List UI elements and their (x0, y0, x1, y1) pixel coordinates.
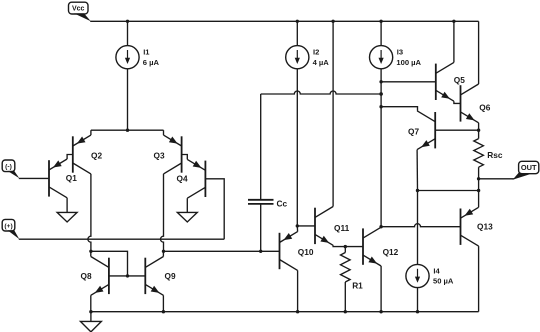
svg-text:Q6: Q6 (479, 102, 490, 112)
wire Q1 collector to ground (66, 198, 68, 213)
wire Q4 base down (205, 179, 224, 239)
node output Q13 (477, 189, 480, 192)
node Rsc top (477, 129, 480, 132)
svg-text:R1: R1 (352, 280, 363, 290)
svg-text:I3: I3 (397, 48, 403, 57)
transistor Q5 (436, 62, 454, 101)
label Q10 (298, 247, 314, 257)
transistor Q13 (461, 207, 479, 246)
transistor Q7 (417, 111, 435, 150)
svg-text:Q4: Q4 (177, 173, 188, 183)
svg-text:I1: I1 (143, 48, 150, 57)
node Q7 emitter I4 (416, 189, 419, 192)
wire Q9 collector up (162, 251, 164, 256)
svg-text:Q12: Q12 (383, 247, 399, 257)
node bottom I4 (416, 310, 419, 313)
wire Q8 collector up (90, 251, 92, 256)
wire Q8 Q9 bases (109, 275, 145, 277)
wire Q9 emitter down (162, 295, 164, 311)
top rail wire (128, 20, 479, 22)
node top rail Q11 collector (331, 20, 334, 23)
label Q13 (477, 221, 493, 231)
svg-text:100 µA: 100 µA (396, 58, 421, 67)
node bottom Q10 (296, 310, 299, 313)
label I3 100uA (396, 48, 421, 67)
label Q4 (177, 173, 188, 183)
svg-text:Q5: Q5 (454, 75, 465, 85)
noninverting input terminal (2, 219, 19, 239)
svg-text:Q8: Q8 (81, 271, 92, 281)
wire Vcc to top rail (90, 20, 127, 22)
node bottom R1 (344, 310, 347, 313)
wire Q2 collector down (88, 174, 91, 251)
label Q6 (479, 102, 490, 112)
wire Q8 emitter down (90, 295, 92, 311)
label Q3 (154, 150, 165, 160)
wire Q13 emitter down (478, 246, 480, 312)
wire I1 to input pair (127, 69, 129, 130)
wire rail to I1 (127, 21, 129, 45)
wire Q13 collector up (478, 191, 480, 208)
bottom rail wire (91, 311, 479, 313)
capacitor Cc (248, 94, 274, 251)
inverting input terminal (2, 160, 19, 178)
wire I4 top (417, 191, 419, 265)
node Q10 emitter Q11 base (296, 224, 299, 227)
wire Rsc node down (478, 179, 480, 191)
wire Q2 emitter drop (90, 130, 92, 135)
label Cc (277, 198, 288, 208)
wire Q7 collector line (381, 107, 417, 111)
wire Q4 emitter to Q3 base (182, 155, 188, 160)
wire rail to I3 (380, 21, 382, 45)
svg-text:Q11: Q11 (334, 223, 350, 233)
label I4 50uA (433, 266, 454, 285)
ground under Q4 (177, 212, 197, 222)
svg-text:Vcc: Vcc (72, 6, 85, 13)
wire Q11 base (297, 225, 315, 227)
wire Q10 collector down (297, 270, 299, 311)
node Q3 collector Q9 (162, 250, 165, 253)
wire Q11 emitter to Q12 base (333, 245, 363, 246)
svg-text:Q1: Q1 (66, 173, 77, 183)
wire Q1 emitter to Q2 base (67, 155, 73, 160)
transistor Q6 (461, 84, 479, 123)
wire Q5 emitter to Q6 base (454, 101, 461, 103)
svg-text:Rsc: Rsc (487, 150, 503, 160)
wire Q12 collector up (380, 226, 382, 229)
transistor Q2 (73, 135, 91, 174)
ground bottom (80, 321, 101, 332)
svg-text:OUT: OUT (521, 163, 537, 172)
label Q8 (81, 271, 92, 281)
wire mirror out to Q10 base (163, 250, 279, 252)
label Q1 (66, 173, 77, 183)
svg-text:Cc: Cc (277, 198, 288, 208)
svg-text:I4: I4 (433, 266, 440, 275)
wire I3 down (380, 69, 382, 227)
svg-text:50 µA: 50 µA (433, 277, 454, 286)
node top rail Q5 collector (452, 20, 455, 23)
wire rail down to Q6 collector (478, 21, 480, 84)
label Q9 (165, 271, 176, 281)
svg-text:(-): (-) (5, 163, 12, 170)
node bottom Q8 (89, 310, 92, 313)
label Q11 (334, 223, 350, 233)
wire Cc top horizontal (261, 91, 381, 94)
svg-text:Q13: Q13 (477, 221, 493, 231)
transistor Q1 (49, 159, 67, 198)
resistor Rsc (474, 130, 484, 179)
node R1 top (344, 245, 347, 248)
wire Q3 emitter drop (163, 130, 165, 135)
wire Q7 emitter to output (418, 190, 479, 192)
svg-text:Q7: Q7 (408, 126, 419, 136)
transistor Q4 (187, 159, 205, 198)
resistor R1 (341, 247, 351, 312)
current source I2 (286, 46, 309, 69)
wire Q10 emitter up (296, 226, 298, 232)
node I3 Cc line (379, 92, 382, 95)
wire Q11 collector up (332, 21, 334, 206)
svg-text:Q2: Q2 (91, 150, 102, 160)
svg-text:6 µA: 6 µA (143, 58, 160, 67)
current source I1 (116, 46, 139, 69)
wire Q7 base (435, 129, 478, 131)
label Q12 (383, 247, 399, 257)
wire emitter rail (91, 129, 164, 131)
wire to bottom ground (90, 312, 92, 322)
transistor Q9 (145, 257, 163, 296)
svg-text:I2: I2 (313, 48, 319, 57)
wire rail to I2 (296, 21, 298, 45)
label I1 6uA (143, 48, 160, 67)
wire OUT (479, 178, 515, 180)
current source I4 (406, 264, 429, 287)
label Q7 (408, 126, 419, 136)
wire mirror diode link (91, 251, 128, 276)
transistor Q10 (280, 232, 298, 271)
label R1 (352, 280, 363, 290)
node bottom Q12 (379, 310, 382, 313)
node bottom Q9 (162, 310, 165, 313)
wire I4 bottom (417, 288, 419, 312)
label Q5 (454, 75, 465, 85)
node Cc top at I3 column (379, 92, 382, 95)
transistor Q3 (164, 135, 182, 174)
current source I3 (370, 46, 393, 69)
transistor Q12 (363, 227, 381, 266)
node top rail I2 (296, 20, 299, 23)
wire I2 down (296, 69, 298, 226)
OUT terminal (513, 161, 539, 180)
svg-text:Q10: Q10 (298, 247, 314, 257)
wire Q13 base (381, 224, 460, 227)
node I3 Q5 base (379, 80, 382, 83)
wire Q6 emitter down (478, 123, 480, 130)
svg-text:Q9: Q9 (165, 271, 176, 281)
label I2 4uA (313, 48, 330, 67)
wire Q4 collector to ground (186, 198, 188, 212)
wire Q12 emitter down (380, 266, 382, 312)
transistor Q11 (315, 207, 333, 246)
label Q2 (91, 150, 102, 160)
node mirror bases (126, 274, 129, 277)
wire Q7 emitter down (416, 150, 418, 191)
node top rail I3 (379, 20, 382, 23)
svg-text:4 µA: 4 µA (313, 58, 330, 67)
wire Q5 collector up (453, 21, 455, 62)
wire (+) input (19, 238, 224, 240)
node emitter rail (126, 129, 129, 132)
svg-text:(+): (+) (4, 223, 12, 230)
svg-text:Q3: Q3 (154, 150, 165, 160)
wire Q5 base (381, 81, 436, 83)
wire (-) to Q1 base (19, 177, 49, 179)
ground under Q1 (57, 212, 77, 222)
node top rail I1 (126, 20, 129, 23)
label Rsc (487, 150, 503, 160)
node Q2 collector Q8 (89, 250, 92, 253)
wire Q3 collector down (161, 174, 164, 251)
transistor Q8 (91, 257, 109, 296)
node I3 Q7 line (379, 105, 382, 108)
node OUT junction (477, 177, 480, 180)
node I3 Q12 collector (379, 225, 382, 228)
node Cc bottom (259, 250, 262, 253)
Vcc terminal (69, 2, 91, 21)
